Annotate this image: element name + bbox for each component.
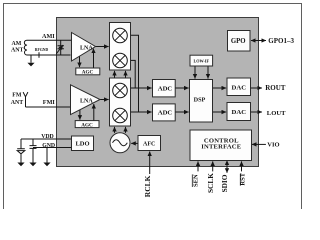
svg-text:RFGND: RFGND bbox=[35, 48, 49, 52]
svg-text:DSP: DSP bbox=[194, 96, 206, 103]
svg-text:LOW-IF: LOW-IF bbox=[193, 58, 209, 63]
svg-text:ANT: ANT bbox=[11, 100, 24, 106]
svg-text:SCLK: SCLK bbox=[206, 173, 215, 193]
svg-text:AFC: AFC bbox=[143, 142, 155, 148]
svg-text:ADC: ADC bbox=[158, 86, 173, 93]
svg-text:AMI: AMI bbox=[42, 33, 55, 40]
svg-text:ROUT: ROUT bbox=[265, 84, 286, 92]
svg-text:GPO: GPO bbox=[231, 38, 246, 45]
svg-text:INTERFACE: INTERFACE bbox=[201, 143, 242, 150]
svg-text:GND: GND bbox=[42, 143, 55, 149]
svg-text:RST: RST bbox=[240, 172, 247, 185]
svg-text:FMI: FMI bbox=[43, 99, 56, 106]
svg-text:ADC: ADC bbox=[158, 110, 173, 117]
svg-text:AM: AM bbox=[12, 41, 22, 47]
svg-text:ANT: ANT bbox=[11, 48, 24, 54]
svg-text:VDD: VDD bbox=[41, 134, 54, 140]
svg-text:AGC: AGC bbox=[82, 70, 94, 76]
svg-text:LDO: LDO bbox=[75, 141, 89, 148]
svg-text:RCLK: RCLK bbox=[143, 175, 152, 197]
svg-text:FM: FM bbox=[12, 93, 22, 99]
svg-text:LNA: LNA bbox=[80, 98, 93, 104]
svg-text:SEN: SEN bbox=[192, 174, 199, 187]
svg-text:SDIO: SDIO bbox=[220, 174, 229, 192]
svg-text:VIO: VIO bbox=[267, 142, 279, 149]
svg-text:LNA: LNA bbox=[80, 45, 93, 51]
svg-text:DAC: DAC bbox=[232, 84, 247, 91]
svg-text:AGC: AGC bbox=[81, 122, 93, 128]
svg-text:DAC: DAC bbox=[232, 109, 247, 116]
svg-text:LOUT: LOUT bbox=[267, 110, 286, 117]
svg-text:GPO1–3: GPO1–3 bbox=[268, 37, 294, 45]
